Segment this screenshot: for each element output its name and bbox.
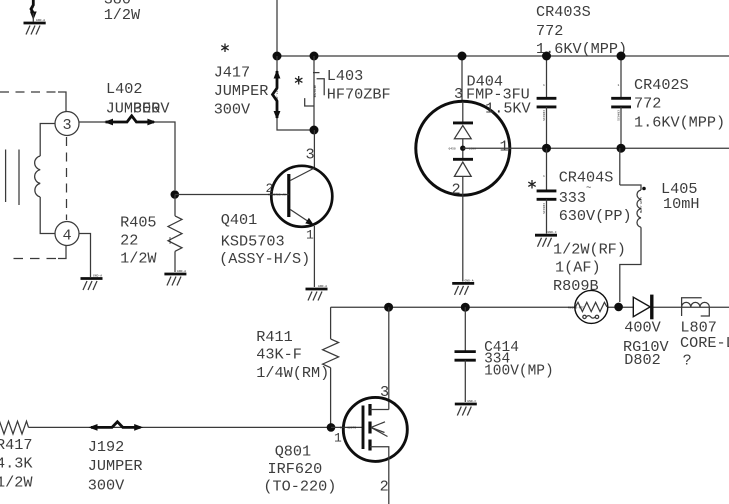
transformer core lines	[6, 150, 19, 206]
svg-text:1: 1	[500, 138, 509, 156]
svg-text:CR403S: CR403S	[536, 3, 591, 21]
svg-text:1(AF): 1(AF)	[555, 259, 601, 277]
svg-text:300V: 300V	[133, 100, 170, 118]
svg-text:CORE-L: CORE-L	[680, 334, 729, 352]
svg-text:2: 2	[380, 478, 389, 496]
svg-text:L403: L403	[327, 67, 363, 85]
jumper J192	[89, 422, 144, 431]
ground G1 top-left	[24, 19, 46, 35]
svg-text:CR402S: CR402S	[634, 76, 689, 94]
transformer T401 dashed body top	[0, 92, 66, 111]
ground G5 under D404 pin2	[452, 279, 474, 295]
svg-text:1: 1	[618, 84, 620, 87]
transistor Q801	[331, 383, 407, 504]
node top bus J417	[273, 52, 282, 61]
svg-text:1.6KV(MPP): 1.6KV(MPP)	[634, 114, 725, 132]
svg-text:3: 3	[380, 383, 389, 401]
transformer dashed axis	[66, 137, 68, 220]
svg-text:1/2W: 1/2W	[0, 474, 33, 492]
svg-text:GND-A: GND-A	[93, 275, 102, 278]
svg-text:?: ?	[683, 352, 692, 370]
svg-text:1: 1	[306, 228, 314, 243]
svg-text:333: 333	[559, 189, 586, 207]
svg-text:1/4W(RM): 1/4W(RM)	[256, 364, 329, 382]
node top bus L403	[310, 52, 319, 61]
svg-text:L402: L402	[106, 80, 142, 98]
ground G7 under C414	[455, 400, 477, 416]
node Q801 drain riser	[384, 303, 393, 312]
svg-text:Q401: Q401	[221, 211, 257, 229]
svg-text:IRF620: IRF620	[268, 460, 323, 478]
svg-text:J417: J417	[214, 64, 250, 82]
wire bottom bus	[331, 306, 729, 308]
svg-text:1/2W: 1/2W	[104, 6, 141, 24]
svg-text:CR403S: CR403S	[542, 110, 545, 121]
svg-text:1.5KV: 1.5KV	[485, 99, 531, 117]
svg-text:1: 1	[334, 431, 342, 446]
node Q801 gate	[327, 423, 336, 432]
svg-text:GND-A: GND-A	[177, 270, 186, 273]
svg-text:D802: D802	[624, 351, 660, 369]
thermistor R809B	[568, 290, 608, 323]
svg-text:L405-10MH: L405-10MH	[639, 197, 642, 213]
svg-text:400V: 400V	[624, 319, 661, 337]
svg-text:772: 772	[634, 95, 661, 113]
jumper J417	[273, 56, 315, 130]
svg-text:22: 22	[120, 232, 138, 250]
svg-text:HF70ZBF: HF70ZBF	[327, 86, 391, 104]
svg-text:R411: R411	[256, 328, 292, 346]
svg-text:772: 772	[536, 22, 563, 40]
svg-text:~: ~	[586, 183, 591, 193]
svg-text:1.6KV(MPP): 1.6KV(MPP)	[536, 40, 627, 58]
svg-text:1/2W(RF): 1/2W(RF)	[553, 240, 626, 258]
svg-text:Q801: Q801	[275, 443, 311, 461]
svg-text:R405: R405	[120, 214, 156, 232]
capacitor CR403S	[537, 52, 557, 153]
inductor L807	[682, 298, 710, 316]
wire top bus	[277, 55, 729, 57]
svg-text:1: 1	[543, 84, 545, 87]
asterisk near CR404S	[528, 180, 535, 189]
wire top-left vertical into ground	[30, 0, 37, 22]
asterisk near L403	[295, 76, 302, 85]
svg-text:JUMPER: JUMPER	[214, 82, 269, 100]
svg-text:GND-A: GND-A	[465, 279, 474, 282]
svg-text:J417-JP: J417-JP	[275, 87, 278, 100]
inductor L405	[620, 148, 646, 302]
svg-text:CR402S: CR402S	[617, 110, 620, 121]
svg-text:3: 3	[63, 116, 72, 134]
asterisk near J417	[221, 44, 228, 53]
svg-text:GND-A: GND-A	[318, 285, 327, 288]
svg-text:10mH: 10mH	[663, 195, 699, 213]
svg-text:6450: 6450	[449, 148, 456, 151]
transformer dashed body bottom	[12, 246, 66, 259]
svg-text:R417: R417	[0, 436, 32, 454]
svg-text:(TO-220): (TO-220)	[263, 478, 336, 496]
resistor R417	[0, 421, 331, 434]
ferrite bead L403	[305, 56, 325, 130]
resistor R405	[168, 195, 182, 273]
node L403 bottom	[310, 126, 319, 135]
svg-text:300V: 300V	[214, 101, 251, 119]
svg-text:CR404S: CR404S	[542, 203, 545, 214]
resistor R411	[323, 307, 339, 427]
svg-text:J4: J4	[31, 5, 34, 9]
wire pin4 to ground	[79, 234, 91, 278]
jumper L402	[104, 116, 156, 126]
node R809B right	[614, 303, 623, 312]
svg-text:3: 3	[306, 146, 315, 164]
svg-text:R405: R405	[168, 237, 171, 244]
node C414 top	[461, 303, 470, 312]
svg-text:HF70ZBF: HF70ZBF	[313, 85, 316, 98]
node base (junction dot)	[171, 190, 180, 199]
capacitor C414	[455, 307, 476, 402]
svg-text:2: 2	[452, 181, 461, 199]
transformer winding	[35, 124, 55, 234]
capacitor CR404S	[537, 148, 557, 233]
wire top feed vertical	[276, 0, 278, 56]
transistor Q401	[175, 130, 332, 287]
svg-text:300V: 300V	[88, 477, 125, 495]
ground G6 under CR404S	[535, 231, 557, 247]
ground G4 under Q401	[306, 285, 328, 301]
svg-text:J192: J192	[88, 438, 124, 456]
diode D802	[633, 295, 652, 320]
wire pin3 to jumper L402	[79, 121, 106, 123]
svg-text:GND-A: GND-A	[36, 19, 45, 22]
svg-text:2: 2	[266, 181, 274, 196]
wire middle bus (D404 pin1)	[463, 147, 729, 149]
wire drain riser	[388, 307, 390, 409]
svg-text:1/2W: 1/2W	[120, 250, 157, 268]
svg-text:630V(PP): 630V(PP)	[559, 207, 632, 225]
transformer pin 4	[55, 222, 79, 246]
ground G2 under pin 4	[81, 275, 103, 291]
ground G3 under R405	[164, 270, 186, 286]
capacitor CR402S	[611, 52, 631, 153]
svg-text:IRF-620TO: IRF-620TO	[340, 427, 356, 430]
svg-text:JUMPER: JUMPER	[88, 457, 143, 475]
svg-text:R809B-NTC: R809B-NTC	[568, 306, 584, 309]
svg-text:1: 1	[543, 175, 545, 178]
svg-text:GND-C: GND-C	[467, 400, 476, 403]
svg-text:43K-F: 43K-F	[256, 345, 302, 363]
svg-text:KSD5703: KSD5703	[221, 233, 285, 251]
transformer pin 3	[55, 112, 79, 136]
svg-text:(ASSY-H/S): (ASSY-H/S)	[219, 250, 310, 268]
svg-text:4: 4	[63, 227, 72, 245]
svg-text:4.3K: 4.3K	[0, 455, 33, 473]
svg-text:100V(MP): 100V(MP)	[484, 363, 554, 379]
svg-text:GND-C: GND-C	[548, 231, 557, 234]
diode block D404	[416, 52, 510, 282]
wire jumper to corner and down to node	[155, 122, 175, 190]
